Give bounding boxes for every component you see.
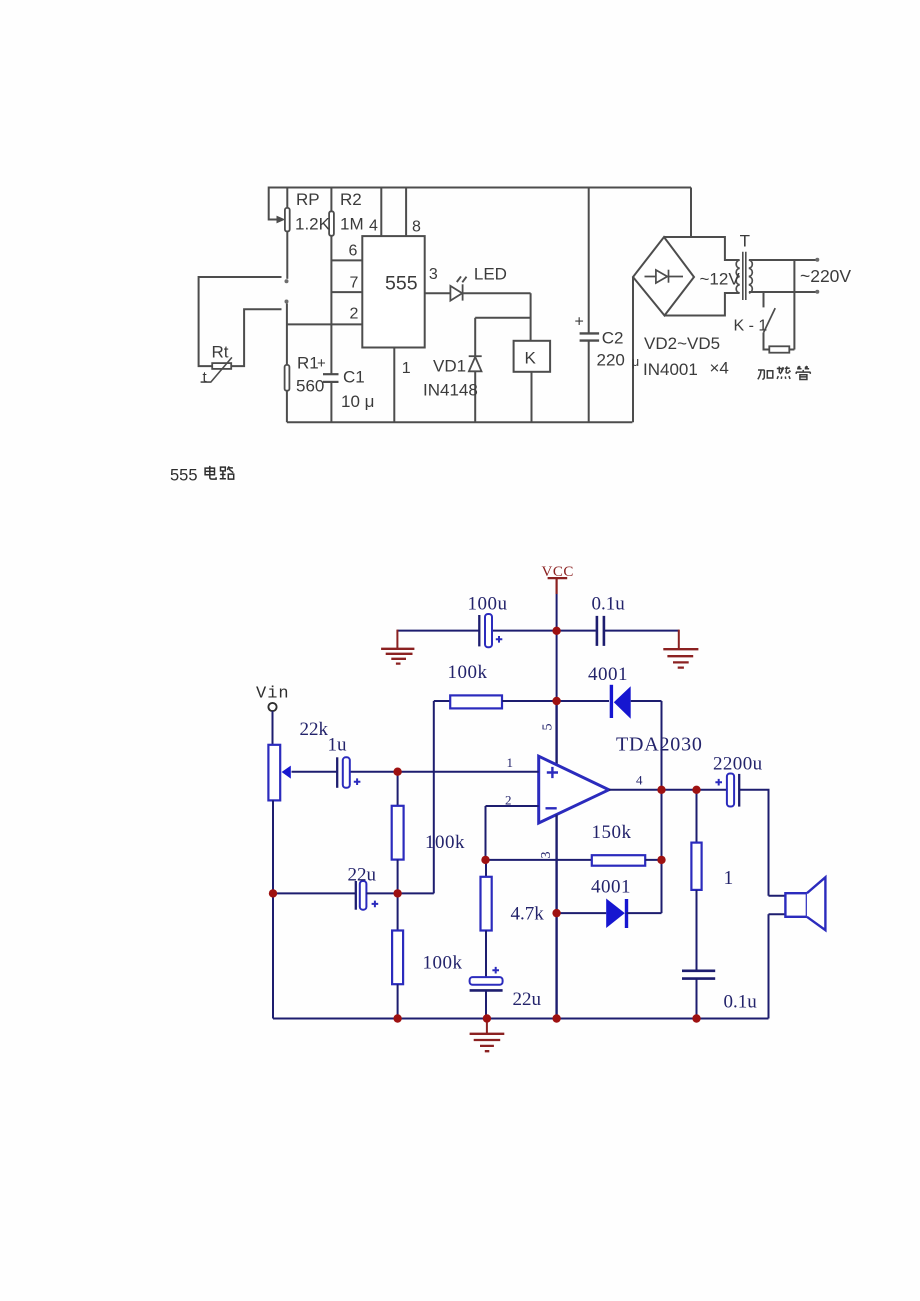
diode 4001 bottom cathode bar <box>625 899 628 928</box>
thermistor Rt diagonal <box>201 357 232 382</box>
potentiometer RP body <box>285 208 290 232</box>
resistor R1 body <box>285 365 290 391</box>
diode 4001 bottom triangle <box>606 899 625 929</box>
wire bottom rail (555 circuit) <box>287 421 633 423</box>
ground bottom bars <box>470 1034 505 1051</box>
junction pin 3 diode node <box>552 909 560 917</box>
speaker body box <box>785 893 807 917</box>
wire bottom 4001 anode <box>557 912 607 914</box>
speaker horn <box>807 877 826 930</box>
wire output riser <box>661 701 663 913</box>
svg-text:TDA2030: TDA2030 <box>616 734 703 756</box>
capacitor 2200u right plate <box>738 774 740 807</box>
svg-text:100k: 100k <box>423 953 463 974</box>
wire pin 1 <box>393 348 395 423</box>
junction output node <box>657 786 665 794</box>
transformer T secondary coil <box>749 260 752 293</box>
svg-text:VCC: VCC <box>542 564 574 580</box>
wire 150k node wire <box>486 859 592 861</box>
junction rail 100k <box>393 1014 401 1022</box>
wire R2 bottom to C1 <box>330 236 332 374</box>
capacitor 22u left plate <box>355 881 357 910</box>
wire 1 ohm to 0.1u <box>696 890 698 971</box>
bridge inner diode triangle <box>656 270 667 283</box>
resistor 150k body <box>592 855 645 866</box>
junction rail pin3 <box>552 1014 560 1022</box>
op-amp U1 555 timer box <box>362 236 424 347</box>
input terminal Vin circle <box>268 703 276 711</box>
wire bridge bottom to transformer <box>665 293 740 316</box>
wire speaker top stub <box>769 895 786 897</box>
ground left stub <box>396 630 398 648</box>
wire top rail right segment <box>605 630 679 632</box>
resistor 100k mid body <box>392 806 404 860</box>
junction feedback node <box>552 697 560 705</box>
potentiometer 22k body <box>268 745 280 801</box>
transformer T primary coil <box>736 260 739 293</box>
resistor 1 ohm body <box>691 843 701 890</box>
capacitor 22u plus <box>372 901 379 908</box>
capacitor 0.1u bottom plates <box>682 971 715 979</box>
wire LED to relay branch <box>530 293 532 341</box>
junction pin 1 node <box>393 768 401 776</box>
svg-text:2200u: 2200u <box>713 754 763 775</box>
node 220V bottom terminal <box>815 290 819 294</box>
wire R1 bottom lead <box>286 391 288 423</box>
op-amp minus marking <box>546 807 557 809</box>
node switch lower contact <box>285 300 289 304</box>
wire secondary top to 220V terminal <box>749 259 816 261</box>
wire pin 3 down <box>555 815 557 1019</box>
wire VD1 upper lead <box>474 318 476 356</box>
svg-text:1: 1 <box>724 868 734 889</box>
junction 22u right node <box>393 889 401 897</box>
relay K coil box <box>514 341 551 372</box>
capacitor 22u bottom plate <box>470 989 503 992</box>
junction rail ground <box>483 1014 491 1022</box>
junction rail 0.1u <box>692 1014 700 1022</box>
svg-text:3: 3 <box>539 852 554 859</box>
wire mid 100k riser <box>397 772 399 806</box>
svg-text:1: 1 <box>507 755 514 770</box>
potentiometer 22k wiper arrow <box>282 766 291 779</box>
wire feedback left riser <box>433 701 435 893</box>
wire heater right branch <box>789 260 794 350</box>
svg-text:4001: 4001 <box>591 877 631 898</box>
capacitor 1u left plate <box>336 757 338 788</box>
wire C2 top lead <box>588 188 590 334</box>
wire pin 7 stub <box>331 291 362 293</box>
bridge rectifier VD2~VD5 diamond <box>633 237 694 316</box>
wire feedback to 100k <box>434 700 450 702</box>
capacitor C1 bottom plate <box>323 381 339 383</box>
wire VCC to top rail <box>556 594 558 631</box>
svg-text:2: 2 <box>505 793 512 808</box>
capacitor C2 bottom plate <box>580 339 600 341</box>
wire zobel riser <box>696 790 698 843</box>
svg-text:4: 4 <box>636 773 643 788</box>
diode VD1 triangle <box>469 357 482 371</box>
svg-text:0.1u: 0.1u <box>592 594 626 615</box>
wire pin 2 <box>287 323 362 325</box>
junction left rail 22u <box>269 889 277 897</box>
junction 150k right node <box>657 856 665 864</box>
svg-text:1u: 1u <box>328 735 348 756</box>
capacitor C2 top plate <box>580 332 600 334</box>
wire low 100k riser <box>397 893 399 930</box>
wire speaker bottom stub <box>769 913 786 915</box>
wire pin 4 output <box>609 789 727 791</box>
caption 电路 circuit <box>205 466 234 479</box>
LED light arrows <box>457 276 467 282</box>
wire secondary bottom to 220V terminal <box>749 291 816 293</box>
wire 0.1u to rail <box>696 979 698 1019</box>
capacitor 22u bottom plus <box>492 967 499 974</box>
capacitor 22u right plate <box>360 881 367 910</box>
junction VCC rail <box>552 627 560 635</box>
svg-text:0.1u: 0.1u <box>724 992 758 1013</box>
wire bridge top feed <box>690 188 692 238</box>
label 加热管 heating tube <box>758 366 811 379</box>
svg-text:22k: 22k <box>300 719 329 740</box>
wire VCC line to feedback node <box>556 631 558 701</box>
wire pot bottom to left rail <box>272 800 274 1018</box>
wire pin 2 riser down <box>485 806 487 860</box>
diode 4001 top triangle <box>614 686 631 719</box>
ground right bars <box>663 649 698 667</box>
LED indicator triangle <box>450 286 462 301</box>
capacitor 0.1u top plates <box>597 616 604 646</box>
wire VD1 bottom lead <box>474 371 476 422</box>
wire Vin to pot <box>272 711 274 745</box>
wire pin 1 input <box>350 771 539 773</box>
capacitor 1u right plate <box>343 757 350 788</box>
wire pin 5 <box>555 701 557 765</box>
wire bridge left corner to bottom rail <box>632 277 634 422</box>
op-amp U1 TDA2030 triangle <box>539 756 609 823</box>
wire pin 2 input <box>486 805 539 807</box>
wire bottom 4001 cathode to riser <box>627 912 662 914</box>
thermistor Rt body <box>212 363 231 369</box>
svg-text:100k: 100k <box>425 832 465 853</box>
wire R2 top lead <box>330 188 332 212</box>
wire relay bottom lead <box>531 372 533 422</box>
capacitor 100u left plate <box>478 615 480 646</box>
switch K-1 upper lead <box>763 292 765 307</box>
wire 2200u to speaker branch <box>739 790 768 896</box>
switch K-1 lower lead <box>764 333 770 350</box>
bridge inner diode lead <box>645 276 684 278</box>
capacitor C1 top plate <box>323 373 339 375</box>
diode 4001 top cathode bar <box>610 685 613 718</box>
wire top rail mid segment <box>492 630 596 632</box>
svg-text:100u: 100u <box>468 594 508 615</box>
diode VD1 cathode bar <box>469 355 482 357</box>
bridge inner diode bar <box>668 270 670 283</box>
power VCC bar <box>548 577 568 579</box>
wire pin 6 stub <box>331 259 362 261</box>
capacitor 2200u left plate <box>727 774 734 807</box>
wire bridge top to transformer <box>664 237 740 260</box>
wire top rail left segment <box>397 630 478 632</box>
capacitor 2200u plus <box>715 779 722 786</box>
wire A upper contact feed <box>199 277 282 366</box>
resistor 100k low body <box>392 931 403 985</box>
wire VCC node to diode <box>557 700 609 702</box>
wire VCC stub red <box>555 578 557 594</box>
svg-text:4.7k: 4.7k <box>511 904 545 925</box>
wire pin 3 output <box>425 292 531 294</box>
transformer T core <box>743 252 746 300</box>
op-amp plus marking <box>547 767 558 778</box>
svg-text:150k: 150k <box>592 822 632 843</box>
switch K-1 arm <box>764 308 776 332</box>
svg-text:Vin: Vin <box>256 685 290 704</box>
resistor 100k feedback body <box>450 695 502 708</box>
wire RP top lead <box>286 188 288 208</box>
wire switch to R1 <box>286 304 288 365</box>
wire pin 8 <box>405 188 407 237</box>
resistor 4.7k body <box>481 877 492 931</box>
wire 4.7k to 22u bottom <box>485 931 487 978</box>
wire RP wiper stub <box>269 187 278 220</box>
capacitor 100u right plate <box>485 614 492 647</box>
wire 150k to output riser <box>645 859 661 861</box>
svg-text:100k: 100k <box>448 662 488 683</box>
wire 22u bottom to rail <box>485 990 487 1018</box>
svg-text:5: 5 <box>541 724 556 731</box>
ground bottom stub <box>486 1019 488 1034</box>
resistor R2 body <box>329 211 334 236</box>
wire 4.7k riser <box>485 860 487 877</box>
LED cathode bar <box>462 284 464 300</box>
junction zobel node <box>692 786 700 794</box>
capacitor 1u plus <box>354 778 361 785</box>
node 220V top terminal <box>815 258 819 262</box>
svg-text:22u: 22u <box>348 865 377 886</box>
wire mid 100k to 22u node <box>397 860 399 894</box>
wire diode to output riser <box>631 700 662 702</box>
wire top supply rail (555 circuit) <box>269 187 691 189</box>
wire low 100k to bottom rail <box>397 984 399 1018</box>
capacitor 100u plus <box>496 636 503 643</box>
wire pin 4 <box>380 188 382 237</box>
svg-text:4001: 4001 <box>588 664 628 685</box>
wire wiper to 1u cap <box>292 771 338 773</box>
resistor heating tube body <box>769 346 789 352</box>
ground left bars <box>381 649 414 664</box>
wire 100k to VCC node <box>502 700 557 702</box>
potentiometer RP wiper arrow <box>277 216 286 224</box>
wire RP bottom lead to switch contact <box>286 231 288 278</box>
wire speaker branch to rail <box>768 914 770 1018</box>
wire left rail to 22u cap <box>273 892 356 894</box>
node switch upper contact <box>285 279 289 283</box>
wire C2 bottom lead <box>588 341 590 423</box>
wire bottom rail (TDA2030) <box>273 1018 769 1020</box>
wire C1 bottom lead <box>330 382 332 422</box>
junction inverting node <box>481 856 489 864</box>
wire VD1 top link <box>475 317 530 319</box>
capacitor 22u bottom top plate <box>470 977 503 985</box>
svg-text:22u: 22u <box>513 989 542 1010</box>
wire 22u to feedback riser <box>366 892 433 894</box>
wire B Rt to lower contact <box>231 309 281 366</box>
ground right stub <box>678 630 680 649</box>
